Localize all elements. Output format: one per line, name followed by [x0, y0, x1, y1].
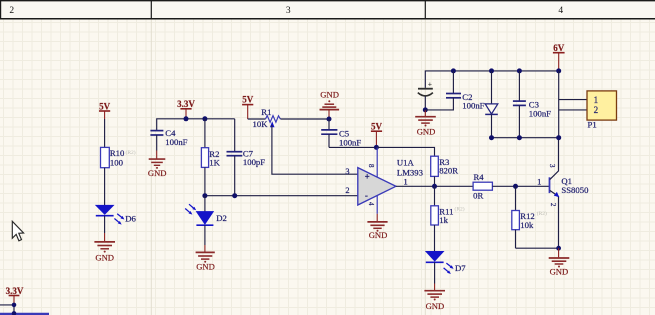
sheet zone column lines (faint) — [151, 20, 425, 315]
svg-text:GND: GND — [426, 301, 445, 311]
wire R10 to D6 — [104, 168, 106, 206]
svg-text:(R2): (R2) — [455, 206, 465, 213]
diode (rectifier) — [485, 71, 498, 138]
node (R2 top) — [202, 116, 207, 121]
wire component edge (bottom) — [0, 313, 49, 315]
svg-text:2: 2 — [594, 105, 599, 115]
photodiode D2 — [185, 204, 227, 225]
node (C2 top) — [451, 68, 456, 73]
node (C5 top) — [327, 117, 332, 122]
svg-text:+: + — [365, 171, 370, 181]
wire 5V rail to R3 — [376, 147, 434, 156]
power port 6V — [553, 43, 565, 71]
wire op-amp pin4 to ground — [376, 214, 378, 222]
svg-text:10K: 10K — [253, 119, 269, 129]
svg-text:100nF: 100nF — [339, 137, 361, 147]
svg-text:D6: D6 — [125, 214, 136, 224]
wire emitter node to ground — [558, 248, 560, 257]
svg-text:GND: GND — [148, 168, 167, 178]
capacitor C3 100nF — [513, 71, 551, 138]
op-amp U1A LM393 — [345, 147, 423, 213]
wire 5V to R10 — [104, 119, 106, 147]
wire bottom rail to Q1 collector — [492, 137, 559, 139]
node (C7 bottom) — [232, 193, 237, 198]
node (R3/R11/output) — [432, 184, 437, 189]
power port 5V (left) — [99, 101, 111, 119]
ground (above C5, flipped) — [320, 90, 340, 119]
wire inverting-input net — [205, 195, 358, 197]
svg-text:-: - — [365, 190, 368, 200]
ground (D6) — [94, 242, 115, 263]
svg-text:3.3V: 3.3V — [6, 286, 24, 296]
node (C3 top) — [517, 68, 522, 73]
wire D6 to ground — [104, 216, 106, 233]
svg-text:2: 2 — [9, 6, 14, 16]
node (R12 top) — [513, 184, 518, 189]
svg-text:10k: 10k — [520, 220, 534, 230]
svg-text:P1: P1 — [588, 119, 597, 129]
power port 3.3V (bottom) — [6, 286, 24, 305]
node (6V entry) — [556, 68, 561, 73]
resistor R4 0R — [473, 172, 492, 200]
top border band — [0, 0, 655, 19]
node (D bottom) — [489, 135, 494, 140]
resistor R3 820R — [431, 156, 459, 186]
svg-text:6V: 6V — [553, 43, 565, 53]
resistor R10 100 — [101, 147, 136, 167]
wire rail 3.3V — [157, 119, 235, 130]
wire 6V top rail — [425, 71, 558, 88]
svg-text:100nF: 100nF — [462, 100, 484, 110]
node (3.3V stub) — [12, 303, 17, 308]
svg-text:2: 2 — [345, 186, 349, 195]
resistor R11 1k — [431, 186, 465, 251]
wire C1 node to ground — [424, 110, 426, 116]
ground (C4) — [148, 159, 167, 178]
wire R12 to emitter — [516, 247, 559, 249]
node (emitter/R12/GND) — [556, 246, 561, 251]
capacitor C1 electrolytic — [418, 79, 433, 110]
wire 5V to R1 — [248, 118, 266, 120]
svg-text:R1: R1 — [261, 107, 271, 117]
wire R1 wiper down — [272, 125, 358, 174]
svg-text:1: 1 — [537, 178, 541, 187]
power port 5V (op-amp) — [371, 122, 383, 148]
node (5V rail) — [374, 145, 379, 150]
svg-text:3: 3 — [548, 164, 556, 168]
svg-text:820R: 820R — [439, 166, 458, 176]
wire bottom-left net — [0, 305, 14, 314]
LED D6 — [96, 205, 137, 224]
wire 6V drop to P1/collector — [558, 71, 560, 138]
node (bottom edge) — [12, 311, 17, 315]
svg-text:100nF: 100nF — [165, 137, 187, 147]
capacitor C4 100nF — [150, 128, 187, 158]
svg-text:GND: GND — [320, 90, 339, 100]
svg-text:GND: GND — [196, 262, 215, 272]
wire R4 to Q1 base — [492, 185, 549, 187]
svg-text:0R: 0R — [473, 190, 483, 200]
svg-text:5V: 5V — [99, 101, 111, 111]
svg-text:+: + — [428, 79, 432, 88]
LED D7 — [426, 251, 466, 274]
ground (D2) — [196, 252, 215, 271]
wire D7 to ground — [434, 262, 436, 283]
svg-text:GND: GND — [95, 253, 114, 263]
resistor R2 1K — [201, 119, 220, 196]
svg-text:LM393: LM393 — [397, 168, 423, 178]
ground (U1A) — [367, 222, 387, 240]
svg-text:5V: 5V — [371, 122, 383, 132]
svg-text:3: 3 — [345, 167, 349, 176]
node (3.3V/C4) — [184, 116, 189, 121]
ground (Q1) — [549, 258, 570, 277]
svg-text:8: 8 — [367, 164, 375, 168]
capacitor C5 100nF — [321, 119, 361, 147]
svg-text:GND: GND — [550, 267, 569, 277]
svg-text:2: 2 — [549, 203, 557, 207]
wire D2 to ground — [204, 225, 206, 245]
svg-text:4: 4 — [367, 202, 375, 206]
node (D top) — [489, 68, 494, 73]
wire C5 to 5V node — [329, 146, 376, 148]
svg-text:1: 1 — [594, 95, 599, 105]
wire P1 pin1 — [559, 99, 587, 101]
svg-text:1k: 1k — [439, 215, 448, 225]
svg-text:5V: 5V — [242, 95, 254, 105]
svg-text:(R2): (R2) — [537, 210, 547, 217]
connector P1 — [587, 91, 617, 129]
svg-text:D2: D2 — [216, 213, 227, 223]
node (C1/C2 bottom) — [423, 107, 428, 112]
resistor R12 10k — [512, 186, 547, 248]
svg-text:GND: GND — [369, 230, 388, 240]
svg-text:GND: GND — [417, 126, 436, 136]
mouse cursor — [12, 221, 23, 241]
potentiometer R1 10K — [253, 107, 281, 129]
node (R2 bottom) — [202, 193, 207, 198]
svg-text:100pF: 100pF — [243, 157, 265, 167]
svg-text:R4: R4 — [474, 172, 485, 182]
svg-text:(R2): (R2) — [126, 149, 136, 156]
svg-text:3: 3 — [286, 6, 291, 16]
wire R1 to C5 node — [280, 118, 329, 120]
wire P1 pin2 — [559, 109, 587, 111]
power port 5V (R1) — [242, 95, 254, 120]
svg-text:4: 4 — [558, 6, 563, 16]
power port 3.3V — [177, 99, 195, 119]
capacitor C2 100nF — [425, 71, 484, 111]
transistor Q1 SS8050 — [537, 138, 589, 249]
svg-text:SS8050: SS8050 — [561, 185, 589, 195]
node (C3 bottom) — [517, 135, 522, 140]
ground (D7) — [424, 291, 445, 311]
capacitor C7 100pF — [227, 119, 266, 196]
node (collector rail) — [556, 135, 561, 140]
svg-text:1K: 1K — [209, 157, 220, 167]
svg-text:3.3V: 3.3V — [177, 99, 195, 109]
svg-text:100nF: 100nF — [529, 108, 551, 118]
svg-text:D7: D7 — [455, 263, 466, 273]
ground (C1) — [415, 117, 436, 137]
wire to D2 — [204, 196, 206, 212]
svg-text:U1A: U1A — [397, 157, 415, 167]
svg-text:100: 100 — [110, 158, 124, 168]
wire output net — [396, 185, 473, 187]
svg-text:1: 1 — [404, 177, 408, 186]
